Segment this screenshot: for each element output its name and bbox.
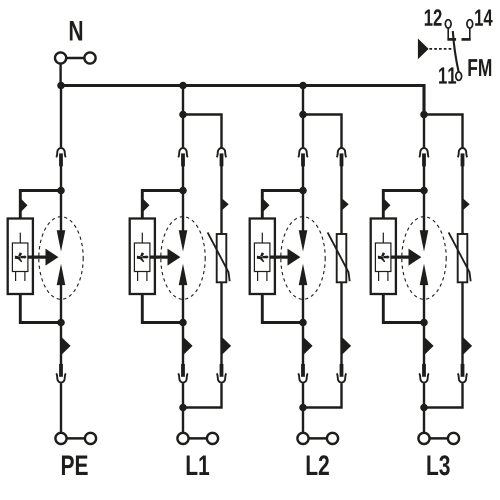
wire varistor branch upper: [461, 166, 463, 234]
trigger unit enclosure U4: [371, 219, 396, 295]
wire junction to trigger box top: [383, 191, 424, 219]
plug-in connector PE main bottom socket: [56, 373, 66, 382]
wire junction to trigger box top: [142, 191, 183, 219]
trigger element (gas discharge tube): [134, 243, 150, 272]
disconnect flag varistor bottom: [463, 337, 473, 356]
wire varistor branch lower: [220, 282, 222, 364]
lightning bolt symbol: [137, 252, 149, 262]
disconnect flag varistor bottom: [342, 337, 352, 356]
FM contact 12 seat: [447, 38, 456, 41]
plug-in connector L2 varistor bottom pin: [340, 364, 344, 377]
terminal L3 circle right: [448, 433, 459, 444]
trigger element leads bottom: [378, 272, 380, 282]
plug-in connector L3 main bottom socket: [419, 373, 429, 382]
FM switch lever: [453, 31, 459, 72]
disconnect flag L1 main bottom: [183, 337, 193, 356]
node bus L1 junction: [179, 82, 187, 90]
trigger element lead top: [382, 233, 384, 243]
disconnect flag varistor branch: [463, 198, 470, 211]
varistor R3 body: [337, 234, 347, 282]
wire out of spark gap: [302, 284, 304, 323]
trigger unit enclosure U3: [250, 219, 275, 295]
plug-in connector PE main top pin: [59, 153, 63, 166]
plug-in connector PE main top socket: [56, 148, 66, 157]
wire varistor branch upper: [220, 166, 222, 234]
FM contact 14 seat: [462, 38, 471, 41]
trigger element leads bottom: [15, 272, 17, 282]
FM contact 12 circle: [445, 20, 451, 28]
plug-in connector L2 main top pin: [301, 153, 305, 166]
trigger element leads bottom: [137, 272, 139, 282]
wire junction to trigger box top: [20, 191, 61, 219]
wire trigger box bottom: [142, 294, 183, 323]
plug-in connector L3 varistor bottom pin: [461, 364, 465, 377]
wire main to tie point: [182, 383, 184, 407]
wire split to varistor branch: [183, 115, 222, 148]
spark gap electrode top F1: [57, 230, 66, 251]
wire tie to terminal: [302, 408, 304, 434]
disconnect flag on trigger branch top: [383, 198, 390, 213]
trigger arrow shaft: [270, 256, 290, 259]
FM dashed actuation line: [429, 48, 453, 50]
wire PE main plug to junction: [60, 166, 62, 191]
wire out of spark gap: [182, 284, 184, 323]
label L2: [307, 456, 318, 475]
terminal L1 link: [189, 437, 208, 440]
trigger element (gas discharge tube): [12, 243, 28, 272]
terminal PE link: [67, 437, 86, 440]
trigger arrow shaft: [391, 256, 411, 259]
FM contact 14 circle: [467, 20, 473, 28]
plug-in connector L3 main top pin: [422, 153, 426, 166]
plug-in connector L1 varistor bottom pin: [220, 364, 224, 377]
plug-in connector L1 main bottom socket: [178, 373, 188, 382]
wire L2 bus drop: [302, 86, 304, 115]
label N: [70, 21, 82, 40]
FM contact 12 lead: [447, 28, 449, 39]
plug-in connector L3 main bottom pin: [422, 364, 426, 377]
plug-in connector L1 varistor top socket: [217, 148, 227, 157]
wire PE main to bottom plug: [60, 323, 62, 365]
varistor R4 diagonal: [449, 232, 471, 281]
node bus L2 junction: [299, 82, 307, 90]
wire L1 main to bottom plug: [182, 323, 184, 365]
wire L1 main plug to junction: [182, 166, 184, 191]
wire varistor branch upper: [340, 166, 342, 234]
disconnect flag on trigger branch top: [142, 198, 149, 213]
FM contact 14 lead: [469, 28, 471, 39]
plug-in connector L1 main bottom pin: [181, 364, 185, 377]
wire out of spark gap: [423, 284, 425, 323]
wire varistor branch lower: [340, 282, 342, 364]
disconnect flag L2 main bottom: [303, 337, 313, 356]
wire L2 main to bottom plug: [302, 323, 304, 365]
wire L1 bus drop: [182, 86, 184, 115]
node L2 tie junction: [299, 404, 307, 412]
plug-in connector PE main bottom pin: [59, 364, 63, 377]
plug-in connector L3 varistor top pin: [461, 153, 465, 166]
trigger element lead top: [141, 233, 143, 243]
wire trigger box bottom: [383, 294, 424, 323]
wire PE bus drop to plug: [60, 86, 62, 148]
wire main to tie point: [302, 383, 304, 407]
varistor R2 diagonal: [208, 232, 230, 281]
varistor R3 diagonal: [328, 232, 350, 281]
node L2 split junction: [299, 111, 307, 119]
node L1 tie junction: [179, 404, 187, 412]
wire trigger box bottom: [20, 294, 61, 323]
wire into spark gap: [182, 191, 184, 232]
wire L2 main plug to junction: [302, 166, 304, 191]
wire L3 main to bottom plug: [423, 323, 425, 365]
wire split to varistor branch: [424, 115, 463, 148]
terminal L2 link: [309, 437, 328, 440]
disconnect flag on trigger branch top: [262, 198, 269, 213]
FM pivot 11 circle: [456, 72, 462, 80]
trigger element (gas discharge tube): [254, 243, 270, 272]
label FM: [468, 59, 477, 76]
terminal PE circle right: [85, 433, 96, 444]
trigger unit enclosure U2: [130, 219, 155, 295]
FM indicator triangle: [418, 39, 429, 60]
node L3 trigger-branch bottom junction: [420, 319, 428, 327]
wire varistor branch lower: [461, 282, 463, 364]
wire L3 main plug to junction: [423, 166, 425, 191]
spark gap electrode top F4: [420, 230, 429, 251]
N bus: [61, 86, 424, 115]
spark gap dashed ellipse: [39, 217, 83, 300]
terminal N link: [66, 57, 85, 60]
node L1 split junction: [179, 111, 187, 119]
terminal N circle right: [84, 52, 95, 63]
spark gap electrode bottom F3: [299, 264, 308, 285]
terminal L2 circle right: [327, 433, 338, 444]
label L3: [427, 456, 438, 475]
trigger arrow head: [409, 249, 422, 266]
wire into spark gap: [423, 191, 425, 232]
node PE trigger-branch top junction: [57, 187, 65, 195]
label 14: [475, 10, 483, 26]
plug-in connector L2 main bottom pin: [301, 364, 305, 377]
varistor R4 body: [458, 234, 468, 282]
node L2 trigger-branch bottom junction: [299, 319, 307, 327]
plug-in connector L1 main top pin: [181, 153, 185, 166]
disconnect flag L3 main bottom: [424, 337, 434, 356]
spark gap electrode top F3: [299, 230, 308, 251]
wire into spark gap: [60, 191, 62, 232]
wire varistor rejoin: [183, 383, 222, 407]
spark gap electrode top F2: [179, 230, 188, 251]
label PE: [62, 456, 74, 475]
trigger arrow head: [168, 249, 181, 266]
trigger element leads bottom: [257, 272, 259, 282]
wire main to tie point: [423, 383, 425, 407]
plug-in connector L3 main top socket: [419, 148, 429, 157]
plug-in connector L2 varistor bottom socket: [337, 373, 347, 382]
spark gap dashed ellipse: [281, 217, 325, 300]
node L3 tie junction: [420, 404, 428, 412]
wire varistor rejoin: [424, 383, 463, 407]
spark gap dashed ellipse: [402, 217, 446, 300]
wire varistor rejoin: [303, 383, 342, 407]
wire out of spark gap: [60, 284, 62, 323]
wire L3 main drop to plug: [423, 115, 425, 148]
disconnect flag on trigger branch top: [20, 198, 27, 213]
lightning bolt symbol: [15, 252, 27, 262]
node bus PE junction: [57, 82, 65, 90]
wire L1 main drop to plug: [182, 115, 184, 148]
plug-in connector L1 main top socket: [178, 148, 188, 157]
terminal L1 circle right: [207, 433, 218, 444]
lightning bolt symbol: [257, 252, 269, 262]
varistor R2 body: [217, 234, 227, 282]
spark gap electrode bottom F1: [57, 264, 66, 285]
wire tie to terminal: [182, 408, 184, 434]
wire into spark gap: [302, 191, 304, 232]
terminal L3 circle left: [418, 433, 429, 444]
wire PE to terminal: [60, 383, 62, 433]
plug-in connector L3 varistor top socket: [458, 148, 468, 157]
trigger arrow head: [288, 249, 301, 266]
node L1 trigger-branch bottom junction: [179, 319, 187, 327]
node L3 trigger-branch top junction: [420, 187, 428, 195]
spark gap electrode bottom F4: [420, 264, 429, 285]
terminal L1 circle left: [177, 433, 188, 444]
wire N drop to bus: [59, 64, 61, 86]
trigger arrow shaft: [28, 256, 48, 259]
wire split to varistor branch: [303, 115, 342, 148]
disconnect flag varistor bottom: [222, 337, 232, 356]
wire trigger box bottom: [262, 294, 303, 323]
disconnect flag varistor branch: [342, 198, 349, 211]
trigger arrow shaft: [150, 256, 170, 259]
wire junction to trigger box top: [262, 191, 303, 219]
label 12: [425, 10, 433, 26]
plug-in connector L2 main bottom socket: [298, 373, 308, 382]
terminal N circle left: [55, 52, 66, 63]
terminal L2 circle left: [297, 433, 308, 444]
spark gap dashed ellipse: [161, 217, 205, 300]
trigger element (gas discharge tube): [375, 243, 391, 272]
plug-in connector L2 varistor top pin: [340, 153, 344, 166]
node L1 trigger-branch top junction: [179, 187, 187, 195]
trigger arrow head: [46, 249, 59, 266]
terminal L3 link: [430, 437, 449, 440]
trigger element lead top: [261, 233, 263, 243]
node PE trigger-branch bottom junction: [57, 319, 65, 327]
trigger element lead top: [19, 233, 21, 243]
label 11: [439, 67, 447, 83]
wire L2 main drop to plug: [302, 115, 304, 148]
terminal PE circle left: [55, 433, 66, 444]
trigger unit enclosure U1: [8, 219, 33, 295]
node L3 split junction: [420, 111, 428, 119]
plug-in connector L1 varistor bottom socket: [217, 373, 227, 382]
disconnect flag varistor branch: [222, 198, 229, 211]
wire tie to terminal: [423, 408, 425, 434]
plug-in connector L1 varistor top pin: [220, 153, 224, 166]
wire L3 bus drop: [423, 86, 425, 115]
label L1: [187, 456, 198, 475]
disconnect flag PE main bottom: [61, 337, 71, 356]
lightning bolt symbol: [378, 252, 390, 262]
plug-in connector L2 varistor top socket: [337, 148, 347, 157]
plug-in connector L2 main top socket: [298, 148, 308, 157]
spark gap electrode bottom F2: [179, 264, 188, 285]
plug-in connector L3 varistor bottom socket: [458, 373, 468, 382]
node L2 trigger-branch top junction: [299, 187, 307, 195]
